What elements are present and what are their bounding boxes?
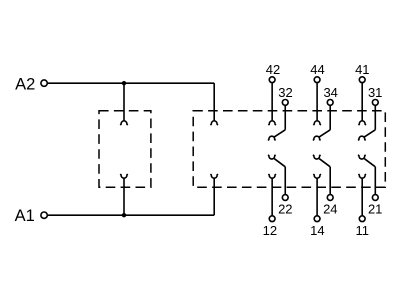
socket arc, contact pin 11 xyxy=(358,174,365,178)
wire terminal 42 down xyxy=(271,83,273,122)
socket arc, relay coil pin A2 xyxy=(210,121,217,125)
socket arc, contact pin 31 xyxy=(358,136,365,140)
svg-text:12: 12 xyxy=(263,223,277,238)
socket arc, option module pin (A2 side) xyxy=(120,121,127,125)
terminal 44 xyxy=(314,77,320,83)
socket arc, relay coil pin A1 xyxy=(210,174,217,178)
wire terminal 22 up xyxy=(284,167,286,195)
svg-text:42: 42 xyxy=(266,62,280,77)
wire terminal 12 up xyxy=(271,178,273,216)
socket arc, contact pin 22 xyxy=(268,155,275,159)
contact blade 32 (diagonal) xyxy=(274,130,285,137)
wire A2 horizontal xyxy=(48,82,214,84)
socket arc, contact pin 12 xyxy=(268,174,275,178)
svg-text:24: 24 xyxy=(323,201,337,216)
wire A2 corner down to relay coil socket xyxy=(213,83,215,121)
terminal 34 xyxy=(327,100,333,106)
terminal 12 xyxy=(269,216,275,222)
svg-text:22: 22 xyxy=(278,201,292,216)
wire terminal 41 down xyxy=(361,83,363,122)
svg-text:A2: A2 xyxy=(15,76,35,94)
socket arc, contact pin 44 xyxy=(313,121,320,125)
wire terminal 11 up xyxy=(361,178,363,216)
terminal 22 xyxy=(282,195,288,201)
socket arc, contact pin 21 xyxy=(358,155,365,159)
terminal 14 xyxy=(314,216,320,222)
wire junction to option module bottom socket xyxy=(123,178,125,216)
contact blade 21 (diagonal) xyxy=(364,159,375,167)
wire terminal 32 down xyxy=(284,105,286,130)
wire terminal 34 down xyxy=(329,105,331,130)
svg-text:32: 32 xyxy=(278,85,292,100)
wire A1 horizontal xyxy=(48,214,214,216)
svg-text:41: 41 xyxy=(355,62,369,77)
socket arc, contact pin 32 xyxy=(268,136,275,140)
wire terminal 21 up xyxy=(374,167,376,195)
terminal 41 xyxy=(359,77,365,83)
svg-text:14: 14 xyxy=(310,223,324,238)
terminal 31 xyxy=(372,100,378,106)
contact blade 31 (diagonal) xyxy=(364,130,375,137)
terminal 42 xyxy=(269,77,275,83)
socket arc, contact pin 24 xyxy=(313,155,320,159)
svg-text:11: 11 xyxy=(356,223,370,238)
terminal 11 xyxy=(359,216,365,222)
option module (dashed box) xyxy=(99,111,151,187)
svg-text:44: 44 xyxy=(310,62,324,77)
svg-text:21: 21 xyxy=(368,201,382,216)
terminal 32 xyxy=(282,100,288,106)
contact blade 34 (diagonal) xyxy=(319,130,330,137)
socket arc, contact pin 41 xyxy=(358,121,365,125)
wire terminal 31 down xyxy=(374,105,376,130)
junction on A2 line xyxy=(122,81,126,85)
terminal A2 xyxy=(41,80,47,86)
wire terminal 24 up xyxy=(329,167,331,195)
svg-text:A1: A1 xyxy=(15,207,35,225)
contact blade 22 (diagonal) xyxy=(274,159,285,167)
junction on A1 line xyxy=(122,213,126,217)
wire terminal 14 up xyxy=(316,178,318,216)
terminal 21 xyxy=(372,195,378,201)
relay module outline (dashed box) xyxy=(193,111,385,187)
svg-text:34: 34 xyxy=(323,85,337,100)
socket arc, contact pin 42 xyxy=(268,121,275,125)
terminal 24 xyxy=(327,195,333,201)
socket arc, option module pin (A1 side) xyxy=(120,174,127,178)
contact blade 24 (diagonal) xyxy=(319,159,330,167)
wire A1 corner up to relay coil socket xyxy=(213,178,215,216)
wire terminal 44 down xyxy=(316,83,318,122)
svg-text:31: 31 xyxy=(368,85,382,100)
terminal A1 xyxy=(41,212,47,218)
wire junction to option module top socket xyxy=(123,83,125,121)
socket arc, contact pin 14 xyxy=(313,174,320,178)
socket arc, contact pin 34 xyxy=(313,136,320,140)
